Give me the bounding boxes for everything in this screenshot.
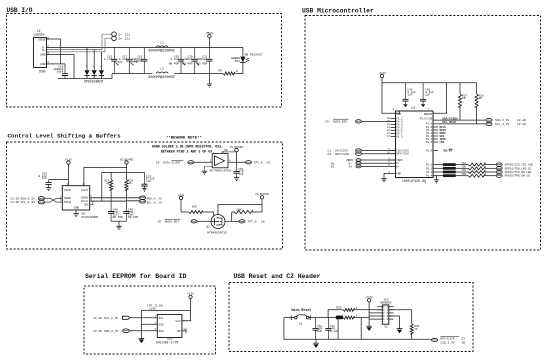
svg-text:MUX0_RST: MUX0_RST	[333, 121, 348, 124]
svg-text:C2.2D: C2.2D	[517, 119, 526, 122]
wire crossover to U8 inputs	[45, 198, 63, 202]
wire C2 reset to U7	[362, 153, 396, 155]
svg-text:1uF: 1uF	[146, 180, 151, 183]
U8 ground pin	[73, 210, 78, 217]
svg-text:SDA/C2SDA: SDA/C2SDA	[442, 116, 458, 120]
ground reset rail	[313, 339, 319, 348]
svg-text:GPIO2/TCK_SW LED: GPIO2/TCK_SW LED	[505, 170, 532, 174]
svg-text:C9: C9	[267, 162, 271, 165]
wire SCL run	[426, 121, 486, 125]
svg-text:D+: D+	[119, 37, 123, 40]
svg-text:SDA: SDA	[159, 330, 164, 333]
J2 pin stubs	[47, 36, 50, 64]
wire RST node to rail	[337, 318, 339, 340]
U8 pin numbers	[60, 183, 93, 216]
resistor R34	[232, 208, 262, 213]
buffer U9 MC74VHC1GT50	[210, 149, 232, 173]
svg-text:MUX0_RST: MUX0_RST	[165, 221, 180, 224]
power symbol VBUS	[206, 31, 214, 47]
svg-text:1000pF: 1000pF	[197, 58, 208, 61]
ferrite bead L1	[148, 40, 174, 53]
wire RST run	[311, 317, 336, 319]
wire bottom rail right of L2	[175, 73, 223, 75]
svg-text:TMS: TMS	[461, 173, 466, 176]
wire VBUS to U7	[361, 158, 403, 163]
wire MUX0_RST to mosfet	[197, 220, 211, 222]
svg-text:P3.0/C2D: P3.0/C2D	[420, 116, 433, 120]
svg-text:24LC00-I/OT: 24LC00-I/OT	[156, 340, 179, 345]
svg-text:TDO: TDO	[461, 166, 466, 169]
svg-text:0.1uF: 0.1uF	[170, 58, 179, 61]
wire REGIN to rail	[433, 83, 446, 114]
svg-text:SP0503BAHT: SP0503BAHT	[84, 79, 104, 83]
power symbol +3.3V level shifter	[65, 157, 72, 185]
label U8 PCA9306DP	[82, 212, 99, 219]
svg-text:2K: 2K	[106, 182, 110, 185]
connector oval RST output	[432, 336, 466, 344]
connector oval VBUS mcu	[346, 159, 361, 163]
svg-text:EN: EN	[84, 203, 88, 206]
power symbol +3.3V mcu	[378, 71, 399, 113]
power symbol VS_BOARD mosfet	[255, 193, 269, 212]
U7 pin ON/RST	[426, 149, 453, 153]
svg-text:U7: U7	[412, 106, 416, 110]
capacitor C52	[325, 318, 338, 340]
header left ground	[366, 322, 372, 331]
rework note text	[152, 136, 223, 154]
svg-text:SCLB: SCLB	[64, 201, 71, 204]
svg-text:J21: J21	[125, 37, 131, 40]
svg-text:C2D_3_3V: C2D_3_3V	[440, 341, 455, 344]
svg-text:1uF: 1uF	[238, 173, 243, 176]
svg-text:4.7uF: 4.7uF	[104, 58, 113, 61]
ground below C21	[207, 74, 212, 88]
U7 right ground	[433, 176, 439, 183]
svg-text:100nF: 100nF	[184, 58, 193, 61]
wire header pin to R30	[389, 310, 412, 324]
wire bottom RST vertical	[360, 318, 362, 340]
svg-text:D11: D11	[235, 60, 240, 63]
wire VS rail	[102, 171, 145, 173]
svg-text:TDI: TDI	[461, 162, 466, 165]
TVS diode array SP0503BAHT	[84, 47, 89, 78]
svg-text:HAND SOLDER 3.3K OHMS RESISTOR: HAND SOLDER 3.3K OHMS RESISTOR, R32,	[152, 145, 223, 149]
svg-text:1uF: 1uF	[425, 94, 430, 97]
svg-text:C5: C5	[159, 197, 163, 200]
U7 C2CK/RST pins	[387, 148, 409, 156]
svg-text:TPT_A: TPT_A	[254, 162, 263, 165]
connector oval SCL_3_3V input	[10, 200, 45, 204]
label SP0503BAHT	[84, 79, 104, 83]
capacitor C18	[132, 47, 147, 73]
capacitor C44	[402, 83, 416, 105]
header J10 C2 debug	[378, 299, 394, 329]
wire D+ to U7	[361, 164, 400, 169]
svg-text:RST/C2CK: RST/C2CK	[396, 152, 409, 156]
svg-text:NO POP: NO POP	[197, 63, 208, 66]
IC U8 level translator	[62, 186, 89, 210]
LED D11 green	[231, 47, 262, 73]
svg-text:USB: USB	[39, 71, 47, 75]
resistor R29	[336, 306, 382, 311]
svg-text:10K: 10K	[192, 206, 198, 209]
wire node up to R29	[328, 310, 343, 318]
U10 WP pin stub	[182, 329, 186, 333]
svg-text:REGIN: REGIN	[424, 113, 433, 116]
svg-text:BETWEEN PINS 2 AND 3 OF U9.: BETWEEN PINS 2 AND 3 OF U9.	[161, 149, 214, 153]
section border: USB Reset dashed box	[229, 283, 473, 352]
capacitor C53 decoupling VS	[141, 172, 154, 188]
wire D- to U7	[361, 161, 400, 166]
svg-text:R29: R29	[336, 306, 342, 309]
svg-text:C2.2D: C2.2D	[10, 197, 19, 200]
svg-text:GND: GND	[40, 62, 46, 66]
svg-text:NO POP: NO POP	[128, 216, 139, 219]
wire vertical shield tie	[47, 39, 61, 64]
section title: USB Microcontroller	[302, 8, 374, 15]
svg-text:10V: 10V	[118, 61, 123, 64]
svg-text:P1.0: P1.0	[426, 150, 433, 153]
wire SDA to U10	[129, 330, 157, 332]
svg-text:C2.2D: C2.2D	[93, 317, 102, 320]
svg-text:P1.2: P1.2	[426, 167, 433, 170]
resistor R31 in RST line	[343, 315, 369, 320]
resistor R25 pullup	[104, 172, 112, 197]
power symbol +3.3V reset	[366, 295, 373, 322]
svg-text:0.1uF: 0.1uF	[119, 58, 128, 61]
IC U7 C8051F320	[393, 106, 433, 184]
power symbol +3.3V mosfet	[178, 193, 185, 212]
power symbol VS_BOARD level shifter	[120, 158, 134, 172]
ground eeprom	[139, 338, 145, 343]
wire CNTL to buffer	[194, 161, 212, 163]
svg-text:1M: 1M	[479, 97, 483, 100]
svg-text:GPIO2/C2: GPIO2/C2	[444, 171, 455, 174]
connector oval SCL_A output	[139, 200, 162, 205]
ferrite bead L2	[148, 66, 174, 80]
wire VBUS pin to vertical	[47, 38, 61, 40]
wire EN stub	[90, 201, 93, 205]
wire C2 clock to U7	[362, 150, 396, 152]
wire VCCA up to VS rail	[84, 168, 127, 186]
svg-text:RST: RST	[337, 317, 342, 320]
svg-text:2K: 2K	[128, 182, 132, 185]
section border: Control Level Shifting dashed box	[7, 142, 283, 249]
resistor R26 pullup	[125, 172, 134, 200]
svg-text:GND: GND	[74, 207, 79, 210]
ground below C44	[403, 104, 407, 107]
svg-text:1K: 1K	[414, 328, 418, 331]
wire mosfet gate top	[218, 205, 262, 215]
svg-text:VBUS: VBUS	[38, 37, 45, 41]
capacitor C17	[119, 47, 138, 73]
connector oval TPT_A C8	[239, 220, 265, 224]
svg-text:PCA9306DP: PCA9306DP	[82, 215, 99, 219]
svg-text:Control Level Shifting & Buffe: Control Level Shifting & Buffers	[8, 133, 122, 140]
wire SCL to U10	[130, 317, 158, 319]
wire mosfet drain to oval	[225, 220, 239, 222]
svg-text:GPIO1/TDO_LED IO: GPIO1/TDO_LED IO	[505, 166, 532, 170]
svg-text:SCL_3_3V: SCL_3_3V	[495, 123, 510, 126]
IC U10 24LC00	[155, 315, 186, 346]
svg-text:HEADER5: HEADER5	[380, 302, 392, 305]
svg-text:IO: IO	[325, 121, 329, 124]
connector oval C2 reset	[328, 152, 362, 156]
ground below C54	[234, 178, 239, 181]
svg-text:L2: L2	[160, 66, 164, 70]
svg-text:1uF: 1uF	[42, 177, 47, 180]
svg-text:TCK: TCK	[461, 169, 466, 172]
svg-text:SDA_A: SDA_A	[147, 197, 156, 200]
wire SCLA output run	[90, 200, 140, 202]
capacitor C49 NO POP	[123, 201, 138, 221]
svg-text:SDAA: SDAA	[81, 196, 88, 199]
svg-text:R5: R5	[218, 70, 222, 73]
svg-text:J2: J2	[37, 29, 41, 33]
power symbol VS_BOARD buffer	[230, 146, 244, 163]
resistor R30	[410, 324, 419, 340]
svg-text:P1.1: P1.1	[426, 164, 433, 167]
section border: USB Microcontroller dashed box	[305, 16, 541, 251]
capacitor C16	[104, 47, 123, 73]
svg-text:C2: C2	[328, 153, 332, 156]
svg-text:GPIO3/C2: GPIO3/C2	[444, 175, 455, 178]
svg-text:LED: LED	[440, 141, 445, 144]
net label RST blob	[336, 316, 343, 320]
switch S1 warm reset	[284, 308, 311, 325]
svg-text:USB Microcontroller: USB Microcontroller	[302, 8, 374, 15]
wire drain node up	[231, 212, 233, 221]
svg-text:1M: 1M	[462, 97, 466, 100]
svg-text:CNTL/U_RST: CNTL/U_RST	[163, 161, 181, 165]
svg-text:U10: U10	[167, 338, 172, 341]
svg-text:VDD: VDD	[396, 113, 401, 116]
svg-text:SDA_3_3V: SDA_3_3V	[21, 197, 36, 200]
svg-text:USB I/O: USB I/O	[7, 7, 33, 14]
connector oval SDA_3_3V	[486, 118, 526, 122]
connector oval SDA_A output	[139, 196, 162, 200]
svg-text:J21: J21	[125, 33, 131, 36]
svg-text:C2: C2	[462, 337, 466, 340]
svg-text:NO POP: NO POP	[169, 63, 180, 66]
wire SDA run	[420, 116, 486, 120]
svg-text:GND: GND	[40, 53, 46, 57]
resistor R27 pullup	[459, 83, 468, 120]
svg-text:C8: C8	[156, 162, 160, 165]
svg-text:TPT_A: TPT_A	[248, 221, 257, 224]
svg-text:SCL_3_3V: SCL_3_3V	[21, 201, 36, 204]
connector oval MUX0_RST mcu	[325, 119, 362, 123]
capacitor C20 NO POP	[182, 47, 199, 73]
connector oval SCL_3_3V	[486, 122, 526, 126]
svg-text:C5: C5	[159, 202, 163, 205]
section title: Control Level Shifting &amp; Buffers	[8, 133, 122, 140]
resistor R33	[181, 206, 214, 216]
svg-text:D+: D+	[349, 166, 353, 169]
svg-text:123K: 123K	[149, 308, 156, 311]
capacitor C15	[53, 64, 68, 79]
svg-text:D8/RT: D8/RT	[444, 149, 453, 153]
svg-text:D-: D-	[119, 33, 123, 36]
wire MUX0_RST to U7	[362, 120, 396, 122]
wire bottom rail left of L2	[112, 73, 153, 75]
wire eeprom vss tie	[141, 310, 157, 338]
capacitor C54 buffer decoupling	[233, 162, 243, 177]
ground bar under TVS array	[58, 78, 112, 80]
svg-text:D1: D1	[331, 166, 335, 169]
svg-text:L1: L1	[160, 40, 164, 44]
svg-text:NO POP: NO POP	[182, 63, 193, 66]
wire D- to test point	[47, 34, 112, 49]
svg-text:RST/C2CK: RST/C2CK	[440, 336, 455, 340]
capacitor C51	[313, 318, 323, 340]
svg-text:P1.4: P1.4	[426, 175, 433, 178]
svg-text:IB: IB	[462, 341, 466, 344]
section title: USB I/O	[7, 7, 33, 14]
svg-text:SDA_3_3V: SDA_3_3V	[495, 119, 510, 122]
svg-text:GPIO0/C2D_TDI LED: GPIO0/C2D_TDI LED	[505, 163, 534, 167]
wire rail stub down	[101, 172, 103, 200]
connector J2 USB receptacle	[34, 29, 47, 75]
svg-text:NTR4003NT1G: NTR4003NT1G	[207, 232, 227, 235]
pullup wire and resistor label	[141, 304, 190, 311]
svg-text:SDAB: SDAB	[64, 197, 71, 200]
svg-text:**REWORK NOTE**: **REWORK NOTE**	[166, 136, 202, 141]
connector oval SDA_3_3V input	[10, 197, 45, 201]
svg-text:100nF: 100nF	[134, 60, 143, 63]
capacitor C21 NO POP	[197, 47, 212, 73]
connector oval CNTL input	[156, 160, 194, 164]
capacitor C19 NO POP	[169, 47, 186, 73]
svg-text:D+: D+	[396, 165, 400, 168]
connector J21 D-/D+ test points	[112, 32, 130, 41]
svg-text:VSS: VSS	[159, 323, 164, 326]
connector oval MUX0_RST input	[157, 219, 197, 223]
svg-text:C2: C2	[384, 326, 388, 329]
section title: USB Reset and C2 Header	[234, 273, 321, 280]
section border: USB I/O dashed box	[7, 14, 282, 108]
U7 left port pins	[387, 117, 403, 138]
wire buffer output	[228, 161, 245, 163]
svg-text:SCL_2_3V: SCL_2_3V	[104, 317, 119, 320]
wire switch left loop	[284, 318, 432, 340]
svg-text:P1.3: P1.3	[396, 135, 403, 138]
svg-text:SCL_MCLK: SCL_MCLK	[442, 121, 456, 124]
transistor Q2 NTR4003N	[206, 215, 227, 235]
svg-text:C2.2D: C2.2D	[93, 330, 102, 333]
svg-text:1uF: 1uF	[407, 94, 412, 97]
buffer ground	[202, 166, 213, 174]
resistor R28 pullup	[475, 83, 484, 124]
connector oval C2 clock	[328, 149, 362, 153]
wire VBUS top rail	[47, 46, 243, 48]
capacitor C45	[420, 83, 434, 105]
svg-text:VCCA: VCCA	[81, 189, 88, 192]
svg-text:D+: D+	[42, 48, 46, 52]
svg-text:HB P160XGT: HB P160XGT	[245, 53, 263, 56]
wire caps common ground	[111, 221, 126, 229]
svg-text:GPIO0/C2: GPIO0/C2	[444, 164, 455, 167]
ground below C53	[142, 188, 146, 191]
svg-text:C2.2D: C2.2D	[517, 123, 526, 126]
section title: Serial EEPROM for Board ID	[85, 273, 187, 280]
svg-text:Serial EEPROM for Board ID: Serial EEPROM for Board ID	[85, 273, 187, 280]
connector SCL_2_3V input	[93, 316, 130, 320]
svg-text:SDA_2_3V: SDA_2_3V	[104, 330, 119, 333]
svg-text:USB Reset and C2 Header: USB Reset and C2 Header	[234, 273, 321, 280]
svg-text:P1.3: P1.3	[426, 171, 433, 174]
connector oval D- mcu	[331, 162, 361, 166]
svg-text:SCL: SCL	[159, 317, 164, 320]
wire mcu top rail	[382, 82, 477, 84]
wire GND pin down	[47, 55, 75, 79]
svg-text:GND: GND	[396, 172, 401, 175]
wire buffer Vcc tap	[222, 152, 237, 154]
svg-text:1uF: 1uF	[317, 330, 322, 333]
wire header fanout stubs	[369, 313, 377, 319]
power symbol +3.3V eeprom	[182, 292, 194, 321]
U7 GND pin and ground	[381, 171, 401, 182]
svg-text:SCL_A: SCL_A	[147, 202, 156, 205]
svg-text:P2.5: P2.5	[426, 141, 433, 144]
capacitor C48 NO POP	[108, 198, 123, 221]
svg-text:S1: S1	[299, 323, 303, 326]
resistor R5	[218, 70, 242, 76]
svg-text:RST/C2CK: RST/C2CK	[335, 152, 350, 156]
svg-text:Warm Reset: Warm Reset	[292, 308, 312, 312]
svg-text:WP: WP	[177, 330, 181, 333]
capacitor C50 decoupling	[38, 172, 68, 187]
svg-text:USB5B4: USB5B4	[34, 33, 45, 36]
svg-text:GPIO3/TMS_SW IO: GPIO3/TMS_SW IO	[505, 174, 530, 178]
GPIO pin rows with series resistors	[426, 162, 533, 167]
svg-text:MC74VHC1GT50: MC74VHC1GT50	[210, 170, 232, 173]
svg-text:600OHM@100MHZ: 600OHM@100MHZ	[148, 75, 174, 80]
connector SDA_2_3V input	[93, 329, 129, 333]
svg-text:VCCB: VCCB	[64, 189, 71, 192]
wire gnd bar to rail	[111, 74, 113, 79]
ground below C45	[421, 104, 425, 107]
svg-text:NO POP: NO POP	[113, 216, 124, 219]
wire D+ to test point	[47, 38, 112, 52]
connector oval TPT_A C9	[246, 161, 271, 165]
ground below C50	[46, 188, 51, 191]
svg-text:GPIO1/C2: GPIO1/C2	[444, 167, 455, 170]
svg-text:IO: IO	[157, 221, 161, 224]
section border: Serial EEPROM dashed box	[84, 286, 216, 354]
connector oval D+ mcu	[331, 165, 361, 169]
svg-text:VCC: VCC	[176, 320, 181, 323]
svg-text:C2.2D: C2.2D	[10, 201, 19, 204]
svg-text:Q2: Q2	[206, 225, 210, 228]
svg-text:10K: 10K	[236, 208, 242, 211]
svg-text:10pF: 10pF	[57, 71, 64, 74]
wire SDAA output run	[90, 197, 140, 199]
U7 right stub pins	[426, 126, 446, 144]
svg-text:600OHM@100MHZ: 600OHM@100MHZ	[148, 49, 174, 54]
header right ground	[389, 316, 403, 333]
svg-text:C8: C8	[261, 221, 265, 224]
svg-text:0.1uF: 0.1uF	[330, 330, 339, 333]
svg-text:C8051F320-GQ: C8051F320-GQ	[402, 180, 426, 184]
